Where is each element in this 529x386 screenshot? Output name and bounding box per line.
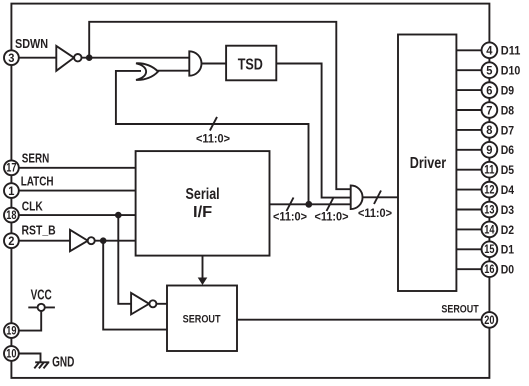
pin 18 (CLK) xyxy=(4,208,19,223)
wire Driver to pin 12 xyxy=(456,189,482,191)
pin 14 (D2) xyxy=(482,222,498,238)
svg-text:D8: D8 xyxy=(501,103,515,117)
inverter U6 (SEROUT clock) xyxy=(131,293,156,315)
wire AND U5 output to Driver xyxy=(363,196,399,198)
pin 6 (D9) xyxy=(482,82,498,98)
svg-text:SEROUT: SEROUT xyxy=(441,304,479,316)
wire inverter U6 to SEROUT block xyxy=(156,303,167,305)
svg-text:LATCH: LATCH xyxy=(21,175,54,189)
svg-text:D2: D2 xyxy=(501,223,515,237)
svg-text:Serial: Serial xyxy=(186,186,220,203)
pin 1 (LATCH) xyxy=(4,183,19,198)
bus slash (after junction) xyxy=(327,198,334,212)
wire SERN to Serial I/F xyxy=(18,167,136,169)
svg-text:1: 1 xyxy=(8,184,14,198)
svg-text:D3: D3 xyxy=(501,203,515,217)
wire Driver to pin 9 xyxy=(456,149,482,151)
junction on RST_B net xyxy=(100,237,107,244)
svg-text:10: 10 xyxy=(6,348,16,360)
svg-text:11: 11 xyxy=(484,165,495,177)
bus slash (driver input) xyxy=(374,191,381,205)
svg-text:SDWN: SDWN xyxy=(15,37,48,51)
svg-text:SERN: SERN xyxy=(22,152,50,166)
svg-text:D1: D1 xyxy=(501,243,515,257)
svg-text:D5: D5 xyxy=(501,163,515,177)
pin 3 (SDWN) xyxy=(4,50,19,65)
VCC supply symbol xyxy=(28,304,55,311)
svg-text:18: 18 xyxy=(6,210,17,222)
wire Driver to pin 13 xyxy=(456,209,482,211)
wire Serial I/F to SEROUT block (arrow) xyxy=(198,256,208,285)
pin 4 (D11) xyxy=(482,42,498,58)
SEROUT block xyxy=(167,286,237,352)
wire Driver to pin 5 xyxy=(456,69,482,71)
inverter U4 (RST_B) xyxy=(70,230,95,251)
wire OR output to AND U2 xyxy=(157,70,189,72)
svg-text:19: 19 xyxy=(6,326,16,338)
wire Driver to pin 14 xyxy=(456,228,482,230)
svg-text:12: 12 xyxy=(484,185,494,197)
wire Driver to pin 16 xyxy=(456,268,482,270)
svg-text:13: 13 xyxy=(484,204,494,216)
pin 7 (D8) xyxy=(482,102,498,118)
pin 5 (D10) xyxy=(482,62,498,78)
wire AND U2 output to TSD xyxy=(202,63,227,65)
svg-text:CLK: CLK xyxy=(22,200,44,214)
pin 10 (GND) xyxy=(4,346,19,361)
ground xyxy=(34,362,49,368)
wire pin 10 to ground xyxy=(18,354,41,363)
pin 11 (D5) xyxy=(482,162,498,178)
svg-text:SEROUT: SEROUT xyxy=(183,313,221,325)
svg-text:14: 14 xyxy=(484,224,495,236)
svg-text:4: 4 xyxy=(486,44,492,58)
pin 13 (D3) xyxy=(482,202,498,218)
svg-text:VCC: VCC xyxy=(31,287,53,303)
wire inverter output to AND gate U2 xyxy=(82,57,190,59)
svg-text:3: 3 xyxy=(8,51,14,65)
pin 9 (D6) xyxy=(482,142,498,158)
svg-text:5: 5 xyxy=(486,64,492,78)
svg-text:D4: D4 xyxy=(501,183,515,197)
svg-text:Driver: Driver xyxy=(410,155,446,172)
svg-text:6: 6 xyxy=(486,83,492,97)
pin 2 (RST_B) xyxy=(4,233,19,248)
pin 19 (VCC) xyxy=(4,323,19,338)
OR gate U3 (12-input reduction) xyxy=(136,63,158,80)
svg-text:I/F: I/F xyxy=(193,204,212,221)
svg-text:2: 2 xyxy=(8,234,14,248)
pin 12 (D4) xyxy=(482,182,498,198)
wire RST_B junction down to SEROUT block xyxy=(103,241,167,330)
svg-text:16: 16 xyxy=(484,264,494,276)
wire CLK junction down to SEROUT inverter U6 xyxy=(118,215,131,304)
svg-text:<11:0>: <11:0> xyxy=(314,211,348,223)
svg-text:<11:0>: <11:0> xyxy=(273,211,307,223)
svg-text:D11: D11 xyxy=(501,44,521,58)
pin 15 (D1) xyxy=(482,241,498,257)
svg-text:17: 17 xyxy=(6,163,16,175)
Serial I/F block xyxy=(136,151,270,256)
junction on CLK net xyxy=(115,212,122,219)
wire Driver to pin 11 xyxy=(456,169,482,171)
AND gate U5 (output gating) xyxy=(351,185,363,209)
wire LATCH to Serial I/F xyxy=(18,190,136,192)
svg-text:15: 15 xyxy=(484,244,495,256)
svg-text:8: 8 xyxy=(486,123,492,137)
wire Serial I/F bus output to output AND gate U5 xyxy=(270,203,351,205)
wire RST_B pin to inverter U4 xyxy=(18,240,70,242)
svg-text:D10: D10 xyxy=(501,64,521,78)
pin 16 (D0) xyxy=(482,261,498,277)
wire RST_B inverted to Serial I/F xyxy=(95,240,136,242)
bus slash on feedback bus xyxy=(210,117,217,131)
TSD block xyxy=(226,46,276,81)
wire Driver to pin 6 xyxy=(456,89,482,91)
wire VCC to pin 19 xyxy=(18,311,41,331)
svg-text:RST_B: RST_B xyxy=(22,224,56,238)
wire TSD output to output AND gate U5 xyxy=(276,64,350,198)
wire Driver to pin 7 xyxy=(456,109,482,111)
svg-text:<11:0>: <11:0> xyxy=(358,208,392,220)
Driver block xyxy=(398,35,456,292)
wire Driver to pin 4 xyxy=(456,49,482,51)
AND gate U2 (thermal shutdown enable) xyxy=(189,51,201,75)
svg-text:TSD: TSD xyxy=(238,56,263,73)
wire SEROUT block to pin 20 xyxy=(237,319,482,321)
svg-text:D7: D7 xyxy=(501,123,515,137)
svg-text:20: 20 xyxy=(484,315,494,327)
wire bus feedback from output bus to OR gate U3 xyxy=(116,71,309,204)
svg-text:D0: D0 xyxy=(501,263,515,277)
svg-text:7: 7 xyxy=(486,103,492,117)
pin 17 (SERN) xyxy=(4,160,19,175)
svg-text:GND: GND xyxy=(52,355,74,371)
wire SDWN pin to inverter xyxy=(18,57,56,59)
svg-text:9: 9 xyxy=(486,143,492,157)
wire Driver to pin 8 xyxy=(456,129,482,131)
junction on SDWN net xyxy=(86,54,93,61)
wire CLK to Serial I/F xyxy=(18,214,136,216)
bus slash (Serial output) xyxy=(287,198,294,212)
svg-text:D9: D9 xyxy=(501,84,515,98)
svg-text:D6: D6 xyxy=(501,143,515,157)
junction on output bus xyxy=(305,201,312,208)
wire Driver to pin 15 xyxy=(456,248,482,250)
pin 20 (SEROUT) xyxy=(482,312,498,328)
inverter U1 (SDWN input buffer) xyxy=(56,46,81,71)
svg-text:<11:0>: <11:0> xyxy=(196,134,230,146)
wire SDWN net feedback to output AND gate U5 xyxy=(89,22,351,189)
pin 8 (D7) xyxy=(482,122,498,138)
